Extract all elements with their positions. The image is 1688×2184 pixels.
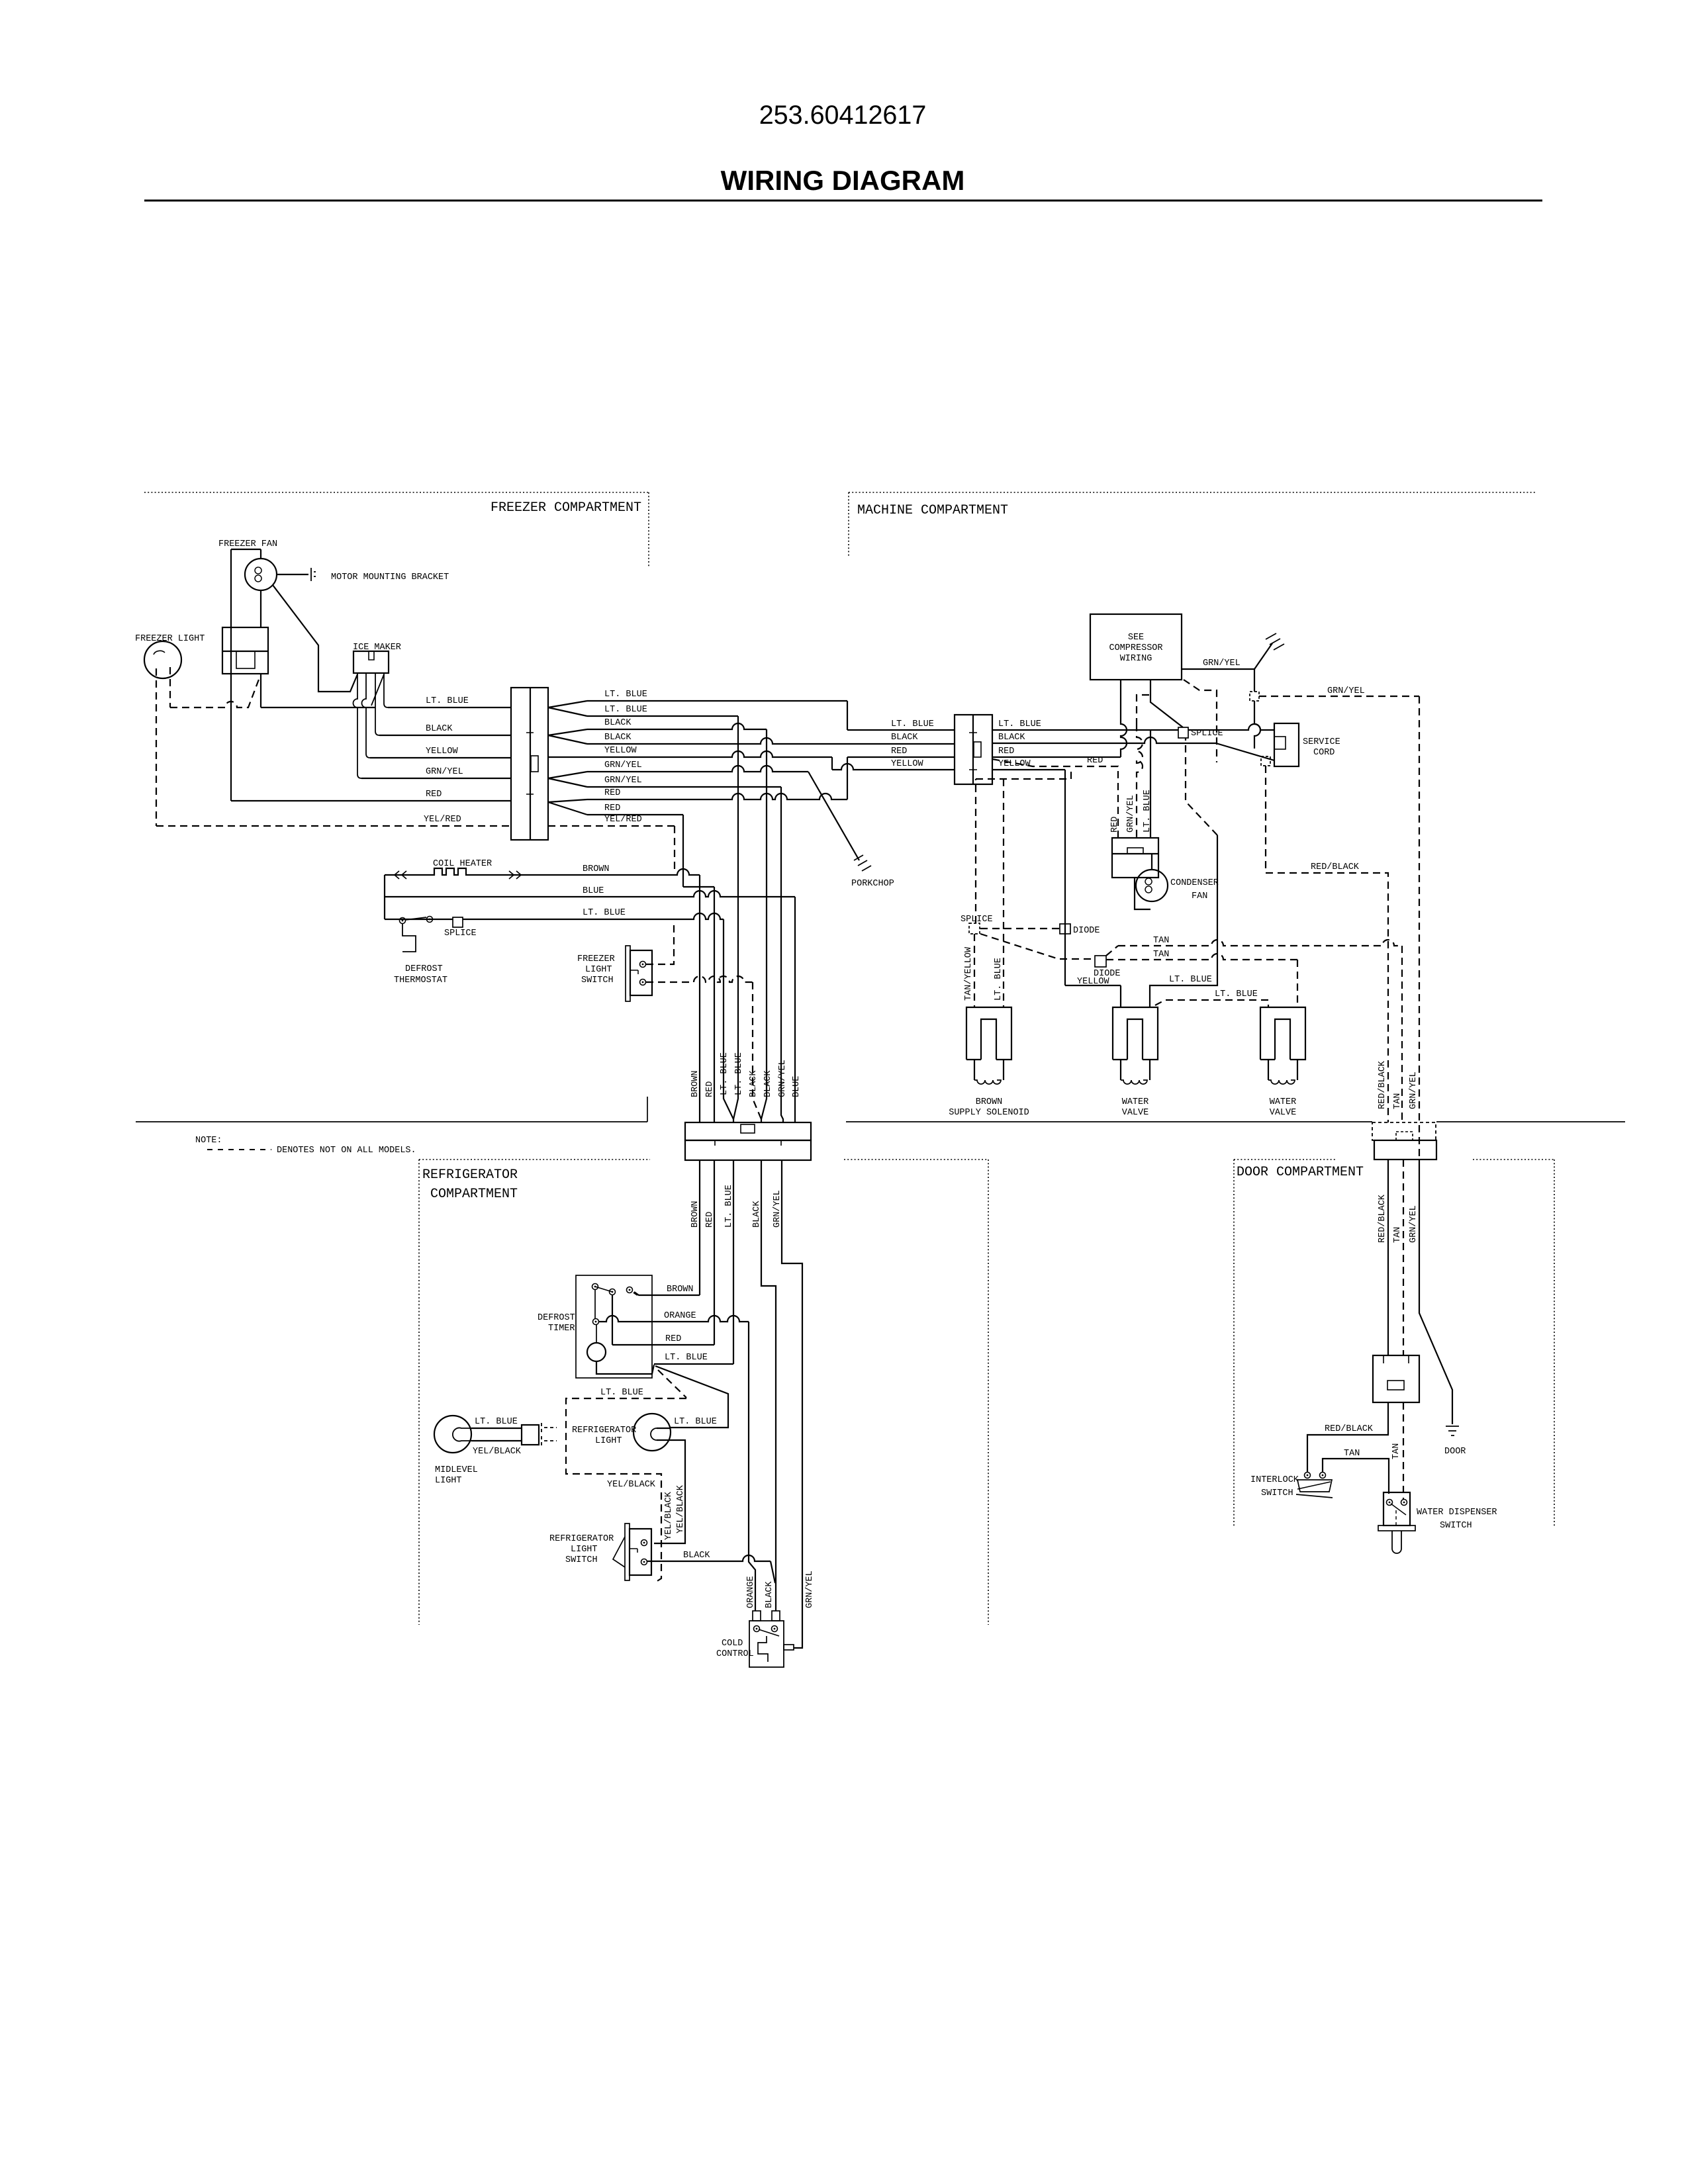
- wire black bundle 2: [761, 729, 767, 1122]
- wire yel/red run (dashed): [548, 825, 675, 827]
- svg-text:BROWN: BROWN: [690, 1201, 700, 1228]
- svg-text:LT. BLUE: LT. BLUE: [1143, 790, 1152, 833]
- wire lt.blue midlevel light: [471, 1428, 522, 1429]
- svg-text:LT. BLUE: LT. BLUE: [1215, 989, 1258, 999]
- diode 2: [1095, 956, 1106, 967]
- svg-text:THERMOSTAT: THERMOSTAT: [394, 976, 447, 985]
- svg-text:DEFROST: DEFROST: [405, 964, 443, 974]
- freezer fan branch top: [231, 549, 261, 550]
- svg-text:MACHINE COMPARTMENT: MACHINE COMPARTMENT: [857, 503, 1008, 518]
- svg-text:FREEZER COMPARTMENT: FREEZER COMPARTMENT: [491, 500, 641, 516]
- wire red run 1 to connector J2: [587, 794, 847, 799]
- svg-text:GRN/YEL: GRN/YEL: [426, 767, 463, 777]
- defrost timer motor: [587, 1343, 606, 1361]
- svg-text:TIMER: TIMER: [548, 1324, 575, 1334]
- coil heater return: [384, 875, 385, 919]
- svg-text:BLUE: BLUE: [583, 886, 604, 896]
- see compressor wiring box: [1090, 614, 1182, 680]
- svg-text:DOOR COMPARTMENT: DOOR COMPARTMENT: [1237, 1165, 1364, 1180]
- svg-text:BROWN: BROWN: [583, 864, 610, 874]
- wire freezer light to yel/red run (dashed): [156, 668, 157, 826]
- door ground symbol: [1446, 1426, 1459, 1435]
- svg-text:COIL HEATER: COIL HEATER: [433, 859, 492, 869]
- svg-text:BLACK: BLACK: [683, 1551, 710, 1561]
- svg-text:RED/BLACK: RED/BLACK: [1311, 862, 1360, 872]
- service cord junction connector (dashed square): [1261, 756, 1270, 766]
- ice maker pin 4 jumper: [371, 674, 384, 705]
- wire tan interlock to dispenser: [1323, 1459, 1389, 1494]
- svg-text:WATER DISPENSER: WATER DISPENSER: [1417, 1508, 1497, 1518]
- svg-text:BLACK: BLACK: [891, 733, 918, 743]
- svg-text:YEL/RED: YEL/RED: [604, 815, 642, 825]
- wire orange from timer: [598, 1316, 749, 1322]
- connector J1 fanout grn/yel pair: [548, 772, 587, 787]
- water valve 1: [1113, 1007, 1158, 1060]
- svg-text:BLACK: BLACK: [604, 718, 632, 728]
- wire plug to lt.blue run: [260, 674, 261, 707]
- refrigerator harness connector J3: [685, 1122, 811, 1140]
- wire lt.blue refrigerator light: [657, 1428, 671, 1429]
- diode 1 on yellow line: [1060, 924, 1070, 934]
- condenser fan motor: [1136, 870, 1168, 901]
- svg-text:YEL/BLACK: YEL/BLACK: [676, 1484, 686, 1533]
- svg-text:BLACK: BLACK: [998, 733, 1025, 743]
- wire lt.blue run 2 into bundle: [587, 715, 738, 717]
- wire switch to lt.blue line (dashed): [646, 921, 674, 964]
- svg-text:RED/BLACK: RED/BLACK: [1378, 1194, 1387, 1243]
- wire freezer fan left lead down to red run: [230, 549, 232, 801]
- refrigerator light bulb: [633, 1414, 671, 1451]
- wire yellow run to connector J2: [548, 751, 832, 757]
- svg-text:SERVICE: SERVICE: [1303, 737, 1340, 747]
- svg-text:LT. BLUE: LT. BLUE: [475, 1417, 518, 1427]
- ice maker body: [353, 651, 389, 673]
- svg-text:BLACK: BLACK: [426, 724, 453, 734]
- svg-text:LT. BLUE: LT. BLUE: [998, 719, 1041, 729]
- wire red run 2 into bundle: [587, 814, 683, 815]
- wire brown bundle: [699, 875, 700, 1122]
- service cord box: [1274, 723, 1299, 766]
- svg-text:LT. BLUE: LT. BLUE: [1169, 975, 1212, 985]
- svg-text:LT. BLUE: LT. BLUE: [426, 696, 469, 706]
- freezer light bulb: [144, 641, 181, 678]
- refrigerator compartment border: [419, 1159, 650, 1160]
- wire lt.blue dashed to light circuit: [566, 1370, 686, 1583]
- svg-text:LT. BLUE: LT. BLUE: [734, 1052, 744, 1095]
- svg-text:LT. BLUE: LT. BLUE: [720, 1052, 729, 1095]
- svg-text:BROWN: BROWN: [976, 1097, 1003, 1107]
- wire switch black (dashed) into bundle: [646, 976, 753, 982]
- svg-text:SWITCH: SWITCH: [581, 976, 614, 985]
- svg-text:DENOTES NOT ON ALL MODELS.: DENOTES NOT ON ALL MODELS.: [277, 1146, 416, 1156]
- wire grn/yel run 2 into bundle: [587, 786, 781, 788]
- svg-text:LIGHT: LIGHT: [585, 965, 612, 975]
- wire lt.blue water valve 2 to splice riser: [1150, 835, 1217, 1008]
- freezer light switch body: [626, 946, 630, 1001]
- svg-text:LT. BLUE: LT. BLUE: [604, 705, 647, 715]
- svg-text:WATER: WATER: [1270, 1097, 1297, 1107]
- svg-text:TAN: TAN: [1393, 1227, 1403, 1243]
- svg-text:LT. BLUE: LT. BLUE: [604, 690, 647, 700]
- svg-text:INTERLOCK: INTERLOCK: [1250, 1475, 1299, 1485]
- motor mounting bracket symbol: [311, 568, 316, 581]
- svg-text:RED: RED: [998, 747, 1014, 756]
- svg-text:PORKCHOP: PORKCHOP: [851, 879, 894, 889]
- wire red to compressor: [992, 756, 1121, 758]
- svg-text:FREEZER FAN: FREEZER FAN: [218, 539, 277, 549]
- wire freezer light to lt.blue run (dashed): [169, 667, 171, 707]
- svg-text:LT. BLUE: LT. BLUE: [724, 1185, 734, 1228]
- svg-text:YELLOW: YELLOW: [891, 759, 924, 769]
- wire freezer fan to motor: [260, 549, 261, 559]
- wire black freezer run: [379, 735, 511, 736]
- svg-text:VALVE: VALVE: [1270, 1108, 1297, 1118]
- svg-text:SWITCH: SWITCH: [1440, 1521, 1472, 1531]
- wire grn/yel bundle: [781, 787, 783, 1122]
- svg-text:YEL/RED: YEL/RED: [424, 815, 461, 825]
- svg-text:RED: RED: [705, 1212, 715, 1228]
- svg-text:CORD: CORD: [1313, 748, 1335, 758]
- svg-text:GRN/YEL: GRN/YEL: [1409, 1205, 1419, 1243]
- wire splice up to dashed bus: [976, 768, 1071, 923]
- svg-text:LIGHT: LIGHT: [595, 1436, 622, 1446]
- wire red/black to interlock switch: [1307, 1402, 1388, 1472]
- wire lt.blue bundle 1: [724, 919, 733, 1122]
- svg-text:GRN/YEL: GRN/YEL: [604, 760, 642, 770]
- wire lt.blue bundle 2: [733, 716, 738, 1119]
- wire black run 2 to connector J2: [587, 738, 955, 744]
- svg-text:WIRING DIAGRAM: WIRING DIAGRAM: [721, 165, 965, 196]
- svg-text:YEL/BLACK: YEL/BLACK: [607, 1480, 656, 1490]
- wire relay to condenser fan: [1135, 878, 1150, 909]
- interlock switch: [1305, 1473, 1311, 1479]
- machine compartment border: [849, 492, 1536, 493]
- wire lt.blue freezer run: [261, 707, 375, 708]
- svg-text:DEFROST: DEFROST: [538, 1313, 575, 1323]
- wire motor to plug: [260, 590, 261, 627]
- svg-text:LIGHT: LIGHT: [435, 1476, 462, 1486]
- wire red dashed to compressor relay: [992, 759, 1118, 838]
- wire blue from coil heater into bundle: [385, 891, 795, 897]
- svg-text:TAN: TAN: [1391, 1443, 1401, 1459]
- wire black from light switch to cold control: [647, 1555, 771, 1561]
- wire yel/red freezer run (dashed): [156, 825, 511, 827]
- svg-text:BLACK: BLACK: [765, 1581, 774, 1608]
- wire brown from coil heater into bundle: [520, 869, 700, 875]
- wire grn/yel dashed to relay: [1137, 695, 1149, 724]
- splice square on lt.blue: [1178, 727, 1188, 738]
- svg-text:BROWN: BROWN: [690, 1070, 700, 1097]
- svg-text:RED: RED: [1087, 756, 1103, 766]
- wire red bundle: [714, 887, 715, 1122]
- svg-text:YELLOW: YELLOW: [426, 747, 459, 756]
- svg-text:BLACK: BLACK: [763, 1070, 773, 1097]
- svg-text:NOTE:: NOTE:: [195, 1136, 222, 1146]
- svg-text:ORANGE: ORANGE: [746, 1576, 756, 1608]
- ice maker pin 3 black: [375, 673, 379, 735]
- freezer harness connector J1: [511, 688, 548, 840]
- svg-text:BROWN: BROWN: [667, 1285, 694, 1295]
- svg-text:GRN/YEL: GRN/YEL: [1126, 795, 1136, 833]
- svg-text:LT. BLUE: LT. BLUE: [891, 719, 934, 729]
- connector J1 fanout red pair: [548, 799, 587, 815]
- svg-text:VALVE: VALVE: [1122, 1108, 1149, 1118]
- wire grn/yel in door to door ground: [1419, 1160, 1452, 1424]
- svg-text:DIODE: DIODE: [1073, 926, 1100, 936]
- wire grn/yel down to junction: [1254, 669, 1255, 692]
- wire grn/yel junction to black diagonal: [1254, 701, 1260, 749]
- wire black run 1 into bundle: [587, 723, 767, 729]
- wire yellow to diode and water valve: [992, 769, 1065, 770]
- svg-text:GRN/YEL: GRN/YEL: [778, 1060, 788, 1097]
- svg-text:SPLICE: SPLICE: [961, 915, 993, 925]
- wire tan/yellow dashed splice to solenoid left pin: [974, 934, 975, 1007]
- wire splice diagonal to diode 2: [980, 934, 1095, 959]
- wire tan in door (dashed): [1403, 1160, 1404, 1355]
- svg-text:WATER: WATER: [1122, 1097, 1149, 1107]
- ice maker pin 4 lt.blue: [384, 673, 388, 707]
- connector J1 fanout lt.blue pair: [548, 701, 587, 716]
- ice maker pin 1 grn/yel: [353, 673, 362, 778]
- wire grn/yel freezer run: [361, 778, 511, 779]
- wire lt.blue run 1 to machine compartment: [587, 700, 847, 702]
- svg-text:COMPRESSOR: COMPRESSOR: [1109, 643, 1162, 653]
- svg-text:YELLOW: YELLOW: [1077, 977, 1110, 987]
- wire lt.blue from timer motor: [596, 1361, 654, 1374]
- midlevel light bulb: [434, 1416, 471, 1453]
- svg-text:RED: RED: [1110, 817, 1120, 833]
- svg-text:WIRING: WIRING: [1120, 654, 1152, 664]
- compressor ground symbol: [1266, 633, 1284, 650]
- svg-text:FREEZER: FREEZER: [577, 954, 615, 964]
- wire blue bundle: [794, 897, 796, 1122]
- svg-text:LIGHT: LIGHT: [571, 1545, 598, 1555]
- porkchop ground symbol: [854, 855, 871, 871]
- wire grn/yel refrigerator: [782, 1160, 802, 1648]
- wire black to service cord: [992, 737, 1216, 743]
- svg-text:GRN/YEL: GRN/YEL: [1409, 1071, 1419, 1109]
- connector J1 fanout black pair: [548, 729, 587, 744]
- svg-text:FAN: FAN: [1192, 891, 1207, 901]
- wire red freezer run: [231, 800, 511, 801]
- svg-text:SEE: SEE: [1128, 633, 1144, 643]
- wire brown to timer: [633, 1293, 637, 1295]
- wire yellow to water valve 2: [1065, 985, 1121, 986]
- svg-text:LT. BLUE: LT. BLUE: [600, 1388, 643, 1398]
- svg-text:YEL/BLACK: YEL/BLACK: [473, 1447, 522, 1457]
- svg-text:TAN: TAN: [1344, 1449, 1360, 1459]
- refrigerator light switch body: [625, 1524, 630, 1580]
- wire red/black in door: [1387, 1160, 1389, 1355]
- wire grn/yel run 1 to porkchop ground: [587, 766, 808, 772]
- svg-text:COLD: COLD: [722, 1639, 743, 1649]
- wire lt.blue to relay: [1150, 730, 1151, 838]
- svg-text:YEL/BLACK: YEL/BLACK: [664, 1491, 674, 1540]
- wire lt.blue to refrigerator light: [655, 1366, 728, 1428]
- svg-text:YELLOW: YELLOW: [998, 759, 1031, 769]
- wire red refrigerator: [714, 1160, 715, 1345]
- svg-text:GRN/YEL: GRN/YEL: [1203, 659, 1241, 668]
- freezer compartment border: [144, 492, 649, 493]
- svg-text:SPLICE: SPLICE: [1191, 729, 1223, 739]
- svg-text:TAN/YELLOW: TAN/YELLOW: [964, 946, 974, 1001]
- wire motor bracket ground to grn/yel run: [273, 585, 357, 692]
- wire lt.blue dashed to solenoid right pin: [1003, 779, 1004, 1007]
- splice on lt.blue defrost line: [453, 917, 463, 927]
- svg-text:ORANGE: ORANGE: [664, 1311, 696, 1321]
- svg-text:SUPPLY SOLENOID: SUPPLY SOLENOID: [949, 1108, 1029, 1118]
- svg-text:RED: RED: [891, 747, 907, 756]
- defrost timer terminals: [592, 1284, 598, 1290]
- compressor ground lead: [1254, 643, 1272, 669]
- svg-text:RED/BLACK: RED/BLACK: [1325, 1424, 1374, 1434]
- compressor relay box: [1112, 838, 1158, 878]
- svg-text:LT. BLUE: LT. BLUE: [583, 908, 626, 918]
- svg-text:RED: RED: [426, 790, 442, 799]
- svg-text:253.60412617: 253.60412617: [759, 101, 927, 130]
- dashed link splice to diode 1: [980, 928, 1060, 929]
- svg-text:RED: RED: [705, 1081, 715, 1097]
- door boundary connector: [1372, 1122, 1436, 1140]
- wire grn/yel dashed to door compartment: [1259, 696, 1419, 697]
- water valve 2: [1260, 1007, 1305, 1060]
- svg-text:BLACK: BLACK: [752, 1201, 762, 1228]
- compartment bottom boundary line: [136, 1121, 647, 1122]
- svg-text:LT. BLUE: LT. BLUE: [674, 1417, 717, 1427]
- brown supply solenoid: [966, 1007, 1011, 1060]
- svg-text:BLACK: BLACK: [604, 733, 632, 743]
- defrost thermostat: [400, 918, 406, 924]
- svg-text:GRN/YEL: GRN/YEL: [773, 1190, 782, 1228]
- freezer fan motor: [245, 559, 277, 590]
- wire yel/black midlevel light: [471, 1440, 522, 1441]
- svg-text:TAN: TAN: [1153, 950, 1169, 960]
- svg-text:SWITCH: SWITCH: [565, 1555, 598, 1565]
- svg-text:SPLICE: SPLICE: [444, 929, 477, 938]
- svg-text:YELLOW: YELLOW: [604, 746, 637, 756]
- freezer fan plug connector: [222, 627, 268, 674]
- porkchop ground lead: [808, 772, 859, 860]
- svg-text:LT. BLUE: LT. BLUE: [994, 958, 1004, 1001]
- motor mounting bracket lead: [277, 574, 308, 575]
- ice maker pin 2 yellow: [362, 673, 371, 758]
- svg-text:RED: RED: [604, 803, 620, 813]
- svg-text:MOTOR MOUNTING BRACKET: MOTOR MOUNTING BRACKET: [331, 572, 449, 582]
- svg-text:GRN/YEL: GRN/YEL: [604, 776, 642, 786]
- svg-text:REFRIGERATOR: REFRIGERATOR: [572, 1426, 636, 1435]
- wire black refrigerator: [761, 1160, 776, 1611]
- svg-text:GRN/YEL: GRN/YEL: [1327, 686, 1365, 696]
- grn/yel junction connector (dashed square): [1250, 692, 1259, 701]
- wire tan lower dashed to water valve 3: [1106, 954, 1297, 960]
- cold control orange pin: [753, 1611, 761, 1621]
- svg-text:TAN: TAN: [1153, 936, 1169, 946]
- wire yel/black refrigerator light: [654, 1440, 685, 1543]
- cold control black pin: [772, 1611, 780, 1621]
- svg-text:BLACK: BLACK: [749, 1070, 759, 1097]
- wire lt.blue defrost line into bundle: [385, 919, 453, 920]
- cold control grn/yel stub: [784, 1645, 794, 1650]
- svg-text:COMPARTMENT: COMPARTMENT: [430, 1187, 518, 1202]
- svg-text:LT. BLUE: LT. BLUE: [665, 1353, 708, 1363]
- water dispenser switch: [1383, 1492, 1410, 1525]
- svg-text:REFRIGERATOR: REFRIGERATOR: [549, 1534, 614, 1544]
- svg-text:REFRIGERATOR: REFRIGERATOR: [422, 1167, 518, 1183]
- wire yellow freezer run: [370, 757, 511, 758]
- wire brown refrigerator: [699, 1160, 700, 1295]
- dashed link compressor box to relay area: [1184, 680, 1217, 762]
- svg-text:RED: RED: [604, 788, 620, 798]
- svg-text:DOOR: DOOR: [1444, 1447, 1466, 1457]
- wire lt.blue to splice and service cord: [992, 729, 1178, 731]
- svg-text:TAN: TAN: [1393, 1093, 1403, 1109]
- svg-text:MIDLEVEL: MIDLEVEL: [435, 1465, 478, 1475]
- wire tan dispenser (dashed): [1403, 1402, 1404, 1499]
- coil heater element: [385, 868, 520, 875]
- wire lt.blue refrigerator: [733, 1160, 734, 1364]
- wire red/black dashed to door compartment: [1266, 766, 1388, 1122]
- door compartment border: [1234, 1159, 1337, 1160]
- svg-text:CONTROL: CONTROL: [716, 1649, 754, 1659]
- wire compressor to splice: [1150, 680, 1183, 727]
- wire black bundle 1 (dashed): [753, 982, 761, 1119]
- midlevel light connector: [522, 1425, 539, 1445]
- svg-text:BLUE: BLUE: [792, 1076, 802, 1097]
- svg-text:SWITCH: SWITCH: [1261, 1488, 1293, 1498]
- cold control body: [749, 1621, 784, 1667]
- title underline: [144, 200, 1542, 202]
- wire tan upper dashed to door compartment: [1106, 946, 1118, 956]
- door dispenser connector: [1373, 1355, 1419, 1402]
- svg-text:GRN/YEL: GRN/YEL: [805, 1570, 815, 1608]
- svg-text:RED: RED: [665, 1334, 681, 1344]
- machine harness connector J2: [955, 715, 992, 784]
- wire lt.blue dashed water valve 2 to water valve 3: [1155, 1000, 1268, 1008]
- wire grn/yel from compressor: [1182, 668, 1254, 670]
- defrost timer box: [576, 1275, 652, 1378]
- svg-text:RED/BLACK: RED/BLACK: [1378, 1060, 1387, 1109]
- svg-text:CONDENSER: CONDENSER: [1170, 878, 1219, 888]
